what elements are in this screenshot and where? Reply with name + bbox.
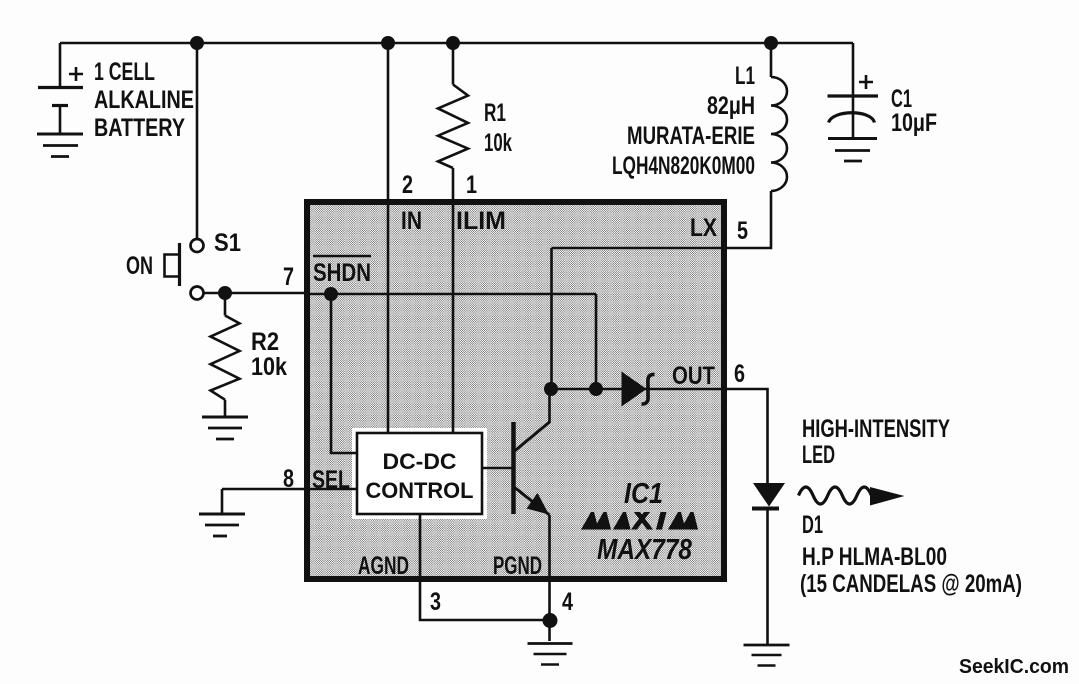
svg-text:IN: IN xyxy=(401,207,422,235)
svg-text:LX: LX xyxy=(690,214,717,242)
svg-text:R1: R1 xyxy=(484,99,506,127)
svg-text:LQH4N820K0M00: LQH4N820K0M00 xyxy=(612,152,755,180)
svg-text:OUT: OUT xyxy=(672,362,715,390)
svg-text:AGND: AGND xyxy=(358,552,409,580)
svg-text:MURATA-ERIE: MURATA-ERIE xyxy=(627,122,755,150)
svg-text:10k: 10k xyxy=(251,353,287,381)
svg-text:(15 CANDELAS @ 20mA): (15 CANDELAS @ 20mA) xyxy=(800,570,1022,598)
svg-text:1 CELL: 1 CELL xyxy=(94,58,155,86)
svg-text:IC1: IC1 xyxy=(624,478,663,510)
svg-text:H.P HLMA-BL00: H.P HLMA-BL00 xyxy=(802,543,947,571)
svg-text:R2: R2 xyxy=(251,328,279,356)
svg-text:6: 6 xyxy=(734,360,745,388)
svg-text:10μF: 10μF xyxy=(891,109,937,137)
svg-text:SEL: SEL xyxy=(312,466,350,494)
svg-text:8: 8 xyxy=(283,465,294,493)
svg-text:ALKALINE: ALKALINE xyxy=(94,86,194,114)
svg-text:ON: ON xyxy=(126,252,153,280)
svg-text:5: 5 xyxy=(737,217,748,245)
svg-text:MAX778: MAX778 xyxy=(597,534,693,566)
svg-text:7: 7 xyxy=(283,263,294,291)
svg-text:LED: LED xyxy=(802,441,835,469)
svg-text:2: 2 xyxy=(402,171,413,199)
svg-text:SeekIC.com: SeekIC.com xyxy=(959,656,1069,678)
svg-text:ILIM: ILIM xyxy=(456,207,506,235)
svg-text:D1: D1 xyxy=(802,511,823,539)
svg-text:82μH: 82μH xyxy=(707,92,755,120)
svg-text:S1: S1 xyxy=(214,229,241,257)
svg-text:1: 1 xyxy=(466,171,477,199)
svg-text:CONTROL: CONTROL xyxy=(366,478,474,503)
svg-text:L1: L1 xyxy=(735,62,755,90)
svg-text:PGND: PGND xyxy=(493,552,542,580)
svg-text:3: 3 xyxy=(430,588,441,616)
svg-text:SHDN: SHDN xyxy=(313,259,371,287)
svg-text:10k: 10k xyxy=(484,129,512,157)
svg-text:HIGH-INTENSITY: HIGH-INTENSITY xyxy=(802,415,950,443)
svg-text:DC-DC: DC-DC xyxy=(383,449,457,474)
svg-text:4: 4 xyxy=(562,588,573,616)
svg-text:BATTERY: BATTERY xyxy=(94,114,185,142)
